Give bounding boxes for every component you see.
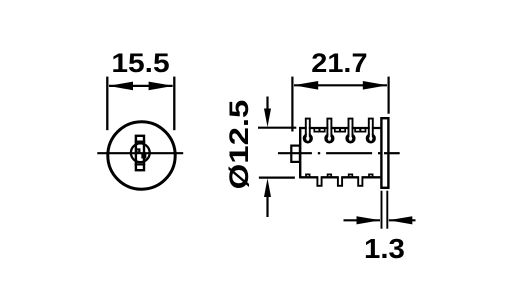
svg-text:21.7: 21.7 <box>311 48 367 78</box>
svg-text:15.5: 15.5 <box>111 48 169 78</box>
svg-text:Ø12.5: Ø12.5 <box>224 100 254 190</box>
svg-text:1.3: 1.3 <box>364 234 405 265</box>
